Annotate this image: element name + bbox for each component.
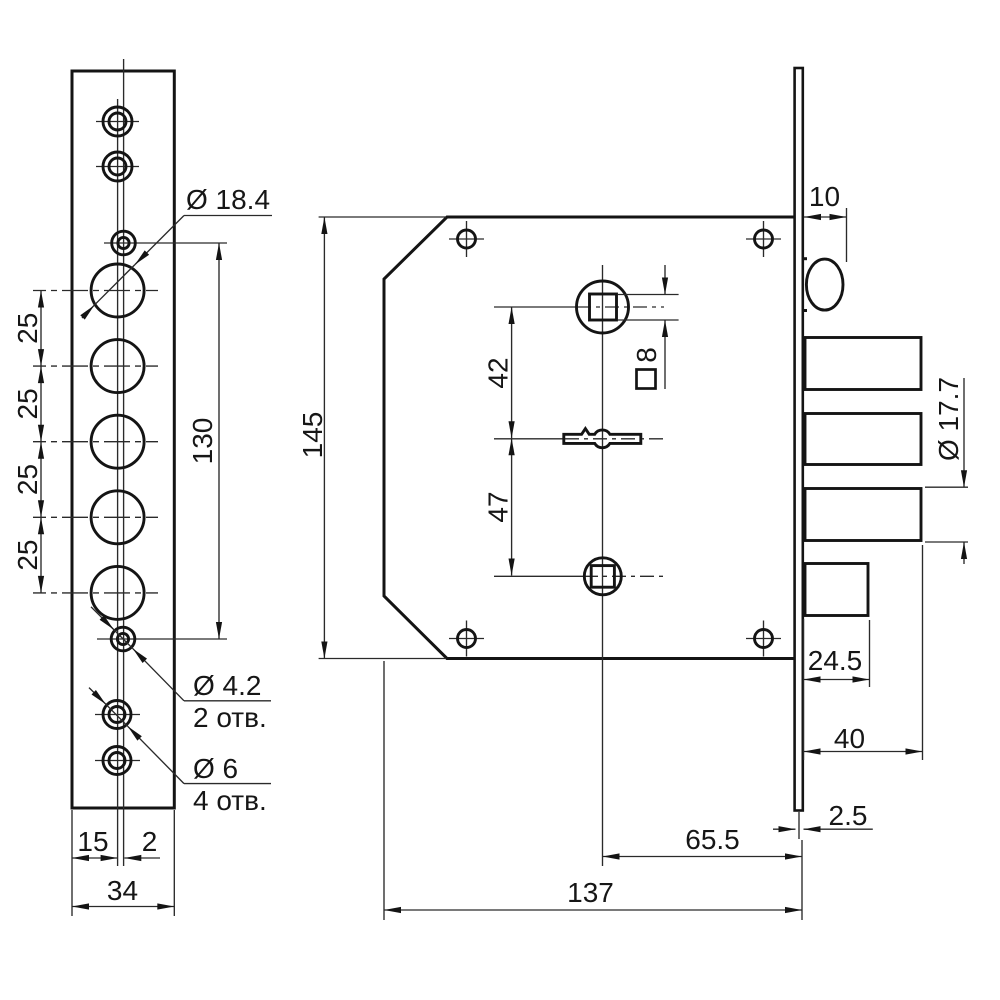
dimension 145: [297, 217, 446, 659]
dimension 25 no.4: [12, 517, 43, 593]
big hole 3 centerline: [33, 441, 158, 443]
svg-text:25: 25: [12, 313, 43, 344]
extension line right edge: [173, 810, 175, 916]
svg-text:4 отв.: 4 отв.: [193, 785, 267, 816]
big hole D18.4 no.5: [91, 566, 144, 619]
latch bolt: [805, 564, 868, 616]
dimension 130: [187, 243, 219, 639]
svg-text:145: 145: [297, 412, 328, 459]
holes axis centerline: [117, 99, 119, 866]
keyhole: [564, 429, 641, 448]
svg-text:40: 40: [834, 723, 865, 754]
lower spindle hole: [584, 558, 621, 595]
dimension 47: [483, 438, 514, 575]
hole D6 bottom 2: [95, 747, 140, 775]
dimension square 8: [618, 265, 679, 389]
svg-text:24.5: 24.5: [808, 645, 863, 676]
svg-text:25: 25: [12, 540, 43, 571]
svg-text:Ø 6: Ø 6: [193, 753, 238, 784]
svg-text:25: 25: [12, 388, 43, 419]
svg-text:137: 137: [567, 877, 614, 908]
svg-text:65.5: 65.5: [685, 824, 740, 855]
keyhole centerline: [494, 438, 564, 440]
svg-text:25: 25: [12, 464, 43, 495]
upper spindle square 8mm: [590, 294, 617, 320]
svg-text:2.5: 2.5: [829, 800, 868, 831]
big hole D18.4 no.3: [91, 415, 144, 468]
svg-text:8: 8: [631, 347, 662, 363]
big hole 1 centerline: [33, 290, 158, 292]
svg-text:34: 34: [107, 875, 138, 906]
vertical axis through spindles: [602, 265, 604, 866]
dimension 25 no.3: [12, 442, 43, 518]
faceplate edge view strip: [795, 68, 803, 811]
svg-text:15: 15: [77, 826, 108, 857]
dimension 2: [124, 826, 160, 858]
dimension D17.7: [925, 377, 968, 564]
svg-text:Ø 17.7: Ø 17.7: [933, 377, 964, 461]
big hole 5 centerline: [33, 592, 158, 594]
svg-text:130: 130: [187, 418, 218, 465]
hole D6 top 1: [96, 107, 139, 136]
label D6 4 holes with leader: [89, 688, 271, 816]
body screw hole bottom-right: [746, 621, 781, 657]
svg-text:Ø 4.2: Ø 4.2: [193, 670, 261, 701]
upper spindle hole: [577, 281, 629, 333]
svg-text:2 отв.: 2 отв.: [193, 702, 267, 733]
svg-text:2: 2: [142, 826, 158, 857]
bolt 3: [805, 489, 921, 541]
dimension 34: [72, 875, 174, 907]
extension line left edge: [71, 810, 73, 916]
bolt 1: [805, 338, 921, 390]
faceplate front view outline: [72, 71, 174, 808]
svg-text:Ø 18.4: Ø 18.4: [186, 184, 270, 215]
dimension 24.5: [804, 619, 870, 760]
svg-text:42: 42: [483, 357, 514, 388]
big hole D18.4 no.1: [91, 264, 144, 317]
lower spindle square: [591, 566, 614, 588]
hole D6 top 2: [96, 152, 139, 181]
plate centerline: [123, 59, 125, 866]
svg-text:47: 47: [483, 491, 514, 522]
dimension 25 no.1: [12, 291, 43, 367]
big hole D18.4 no.4: [91, 491, 144, 544]
dimension 2.5: [773, 800, 873, 839]
big hole 4 centerline: [33, 516, 158, 518]
dimension 15: [72, 826, 118, 858]
upper spindle horizontal centerline: [494, 306, 577, 308]
svg-text:10: 10: [809, 181, 840, 212]
big hole 2 centerline: [33, 365, 158, 367]
cylinder bolt end: [803, 259, 843, 311]
dimension 65.5: [603, 824, 803, 920]
body screw hole top-left: [449, 221, 484, 257]
hole D4.2 bottom: [97, 627, 227, 651]
big hole D18.4 no.2: [91, 340, 144, 393]
bolt 2: [805, 414, 921, 465]
label D18.4 with leader: [82, 184, 272, 318]
label D4.2 2 holes with leader: [91, 607, 271, 733]
dimension 42: [483, 307, 514, 438]
body screw hole top-right: [746, 221, 781, 257]
lower spindle horizontal centerline: [494, 575, 584, 577]
hole D4.2 top: [104, 231, 227, 255]
dimension 25 no.2: [12, 366, 43, 442]
dimension 137: [384, 661, 802, 920]
dimension 40: [804, 545, 923, 760]
dimension 10: [804, 181, 847, 262]
body screw hole bottom-left: [449, 621, 484, 657]
lock body outline: [384, 217, 796, 659]
hole D6 bottom 1: [95, 701, 140, 729]
